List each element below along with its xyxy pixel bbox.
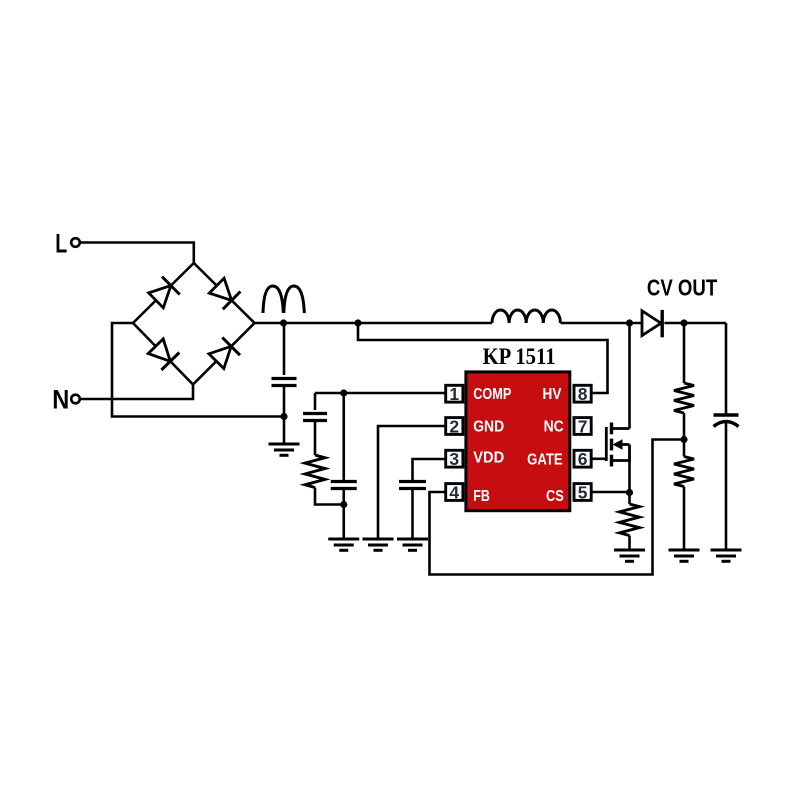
resistor R3 (divider upper) xyxy=(674,383,694,413)
capacitor C1 (bulk) xyxy=(272,379,297,386)
diode D4 (bridge bottom-right) xyxy=(209,338,240,369)
terminal N xyxy=(71,395,80,404)
capacitor C3 (VDD) xyxy=(399,482,426,489)
node COMP junction xyxy=(340,389,347,396)
wire sense resistor top xyxy=(628,492,631,504)
pin 7 box xyxy=(574,418,591,435)
diode D3 (bridge left-bottom) xyxy=(148,339,179,370)
inductor L2 (output) xyxy=(492,310,560,323)
pin 4 box xyxy=(446,484,463,501)
ground G1 xyxy=(269,444,300,455)
pin 8 box xyxy=(574,385,591,402)
ground G4 (sense) xyxy=(614,550,645,561)
pin 1 box xyxy=(446,385,463,402)
capacitor C2b (comp parallel) xyxy=(331,482,357,489)
pin 2 box xyxy=(446,418,463,435)
svg-text:CV OUT: CV OUT xyxy=(647,276,718,301)
bridge edge bottom-right xyxy=(193,323,255,385)
wire source lead xyxy=(628,461,631,494)
terminal L xyxy=(71,238,80,247)
svg-text:8: 8 xyxy=(578,384,588,404)
svg-text:VDD: VDD xyxy=(473,449,504,467)
wire C1 top lead xyxy=(283,323,286,375)
svg-text:NC: NC xyxy=(544,418,564,436)
op-amp U1 body (KP1511 controller) xyxy=(466,372,570,511)
ground G3 (VDD cap) xyxy=(397,539,428,550)
wire DC-minus return xyxy=(112,323,284,417)
wire VDD cap to ground xyxy=(411,489,414,540)
node C1/ground junction xyxy=(280,413,287,420)
resistor R5 (current sense) xyxy=(620,504,640,536)
svg-text:1: 1 xyxy=(449,384,459,404)
transistor Q1 (NMOS) xyxy=(606,423,629,467)
wire comp bottom xyxy=(315,488,344,505)
wire GND pin lead xyxy=(378,426,445,539)
node rectified bus junction xyxy=(280,319,287,326)
ground G2 (comp) xyxy=(328,539,359,550)
svg-text:3: 3 xyxy=(449,449,459,469)
node HV tap junction xyxy=(354,319,361,326)
diode D5 (output CV) xyxy=(642,310,662,337)
svg-text:GATE: GATE xyxy=(527,452,563,469)
resistor R2 (comp) xyxy=(305,455,325,488)
bridge edge top-right xyxy=(194,263,255,323)
svg-text:CS: CS xyxy=(546,488,564,506)
svg-text:HV: HV xyxy=(543,386,562,403)
wire HV feed to pin 8 xyxy=(358,323,608,393)
wire CS to source xyxy=(593,491,630,494)
wire output cap top lead xyxy=(725,323,728,415)
svg-text:FB: FB xyxy=(473,488,490,506)
capacitor C4 (output, polarized) xyxy=(714,415,739,427)
wire diode to output node xyxy=(664,322,726,325)
wire VDD pin lead xyxy=(413,459,445,481)
svg-text:2: 2 xyxy=(449,417,459,437)
wire FB loop to pin 4 xyxy=(430,440,685,575)
node FB divider junction xyxy=(680,436,687,443)
wire drain xyxy=(628,323,631,429)
bridge edge left-bottom xyxy=(133,323,193,385)
pin 6 box xyxy=(574,450,591,467)
wire comp cap top lead xyxy=(314,393,317,410)
inductor L1 (input choke) xyxy=(263,286,304,313)
wire L input xyxy=(80,243,194,264)
diode D2 (bridge top-right) xyxy=(209,278,240,309)
pin 3 box xyxy=(446,450,463,467)
diode D1 (bridge left-top) xyxy=(149,277,180,308)
wire comp cap2 top lead xyxy=(342,393,345,481)
capacitor C2a (comp series) xyxy=(303,414,327,421)
svg-text:4: 4 xyxy=(449,483,459,503)
wire comp to ground xyxy=(342,489,345,540)
wire output cap bottom lead xyxy=(725,422,728,551)
svg-text:L: L xyxy=(55,229,67,259)
ground G6 (output cap) xyxy=(711,550,742,561)
wire comp middle lead xyxy=(314,421,317,456)
node CS junction xyxy=(626,489,633,496)
wire divider top lead xyxy=(683,323,686,383)
resistor R4 (divider lower) xyxy=(674,457,694,487)
wire N input xyxy=(80,385,193,400)
svg-text:N: N xyxy=(52,385,69,415)
wire to ground G1 xyxy=(283,417,286,445)
node comp ground junction xyxy=(340,501,347,508)
wire sense resistor bottom xyxy=(628,536,631,551)
svg-text:7: 7 xyxy=(578,417,588,437)
wire main bus left xyxy=(255,322,493,325)
ground G2b (IC gnd) xyxy=(363,539,394,550)
svg-text:GND: GND xyxy=(473,418,504,436)
wire C1 bottom lead xyxy=(283,386,286,417)
svg-text:KP 1511: KP 1511 xyxy=(483,343,556,370)
wire divider bottom lead xyxy=(683,487,686,551)
svg-text:6: 6 xyxy=(578,449,588,469)
svg-text:5: 5 xyxy=(578,483,588,503)
pin 5 box xyxy=(574,484,591,501)
wire COMP line xyxy=(315,392,445,395)
svg-text:COMP: COMP xyxy=(473,386,511,404)
wire gate lead xyxy=(593,457,607,460)
wire divider middle xyxy=(683,413,686,457)
bridge edge left-top xyxy=(133,263,194,323)
node drain junction xyxy=(626,319,633,326)
ground G5 (divider) xyxy=(669,550,700,561)
wire bus to output diode xyxy=(561,322,643,325)
node output junction xyxy=(680,319,687,326)
